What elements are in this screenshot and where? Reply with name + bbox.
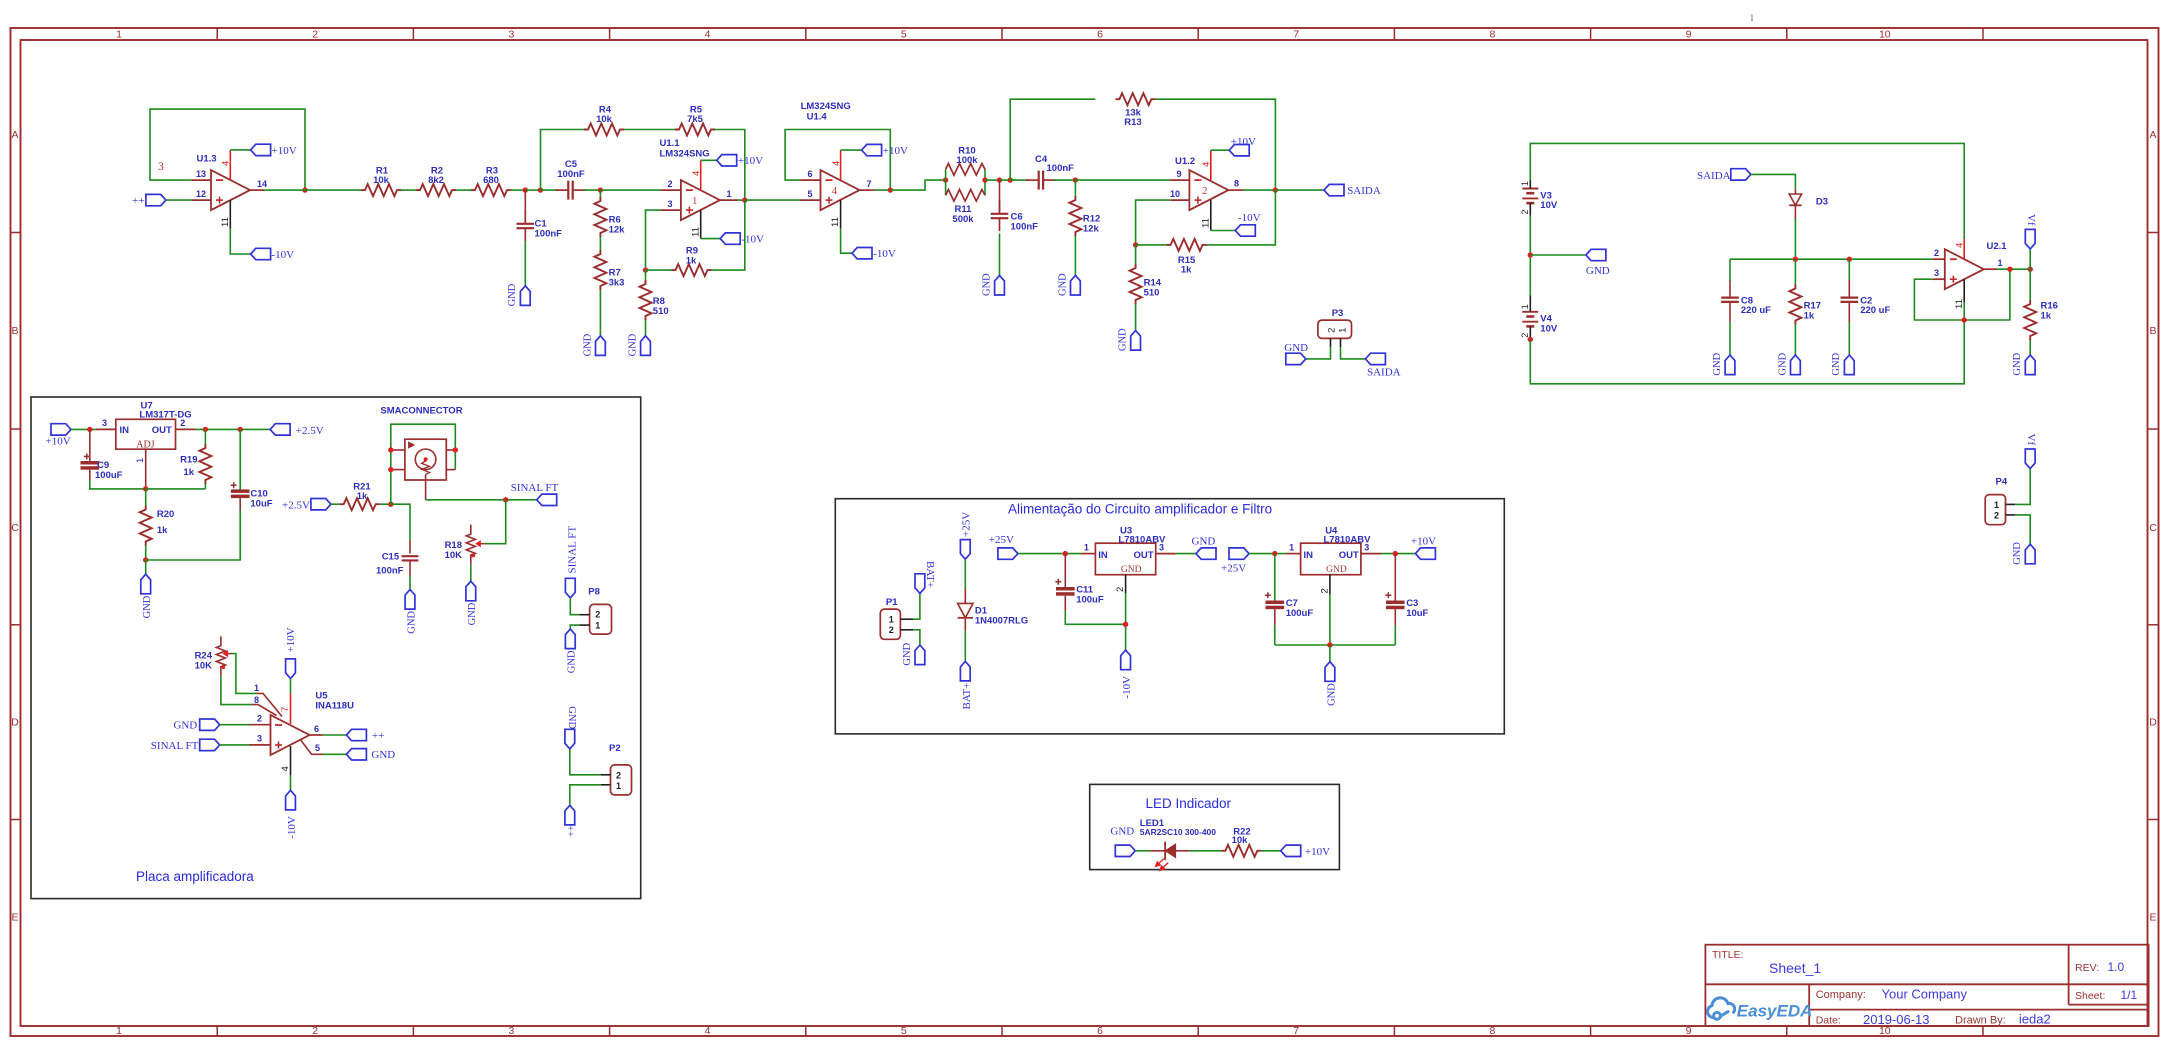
- svg-text:-10V: -10V: [1121, 676, 1133, 699]
- wire feedback loop U1.4: [785, 130, 890, 191]
- svg-text:-10V: -10V: [286, 816, 298, 839]
- svg-text:1/1: 1/1: [2121, 988, 2138, 1002]
- resistor R4: [584, 124, 624, 136]
- svg-text:100uF: 100uF: [1286, 608, 1314, 619]
- pin 2 U5: [250, 724, 271, 726]
- wire riser to R13: [1010, 99, 1095, 180]
- svg-text:R20: R20: [157, 509, 174, 520]
- svg-text:12k: 12k: [609, 224, 626, 235]
- wire ground rail: [1275, 644, 1396, 646]
- svg-text:4: 4: [221, 161, 232, 166]
- wire pin4 to +10V: [841, 149, 862, 151]
- resistor R22: [1221, 845, 1261, 857]
- svg-text:12k: 12k: [1083, 224, 1100, 235]
- svg-text:A: A: [2149, 129, 2156, 141]
- svg-text:3: 3: [508, 29, 514, 41]
- svg-text:6: 6: [1097, 29, 1103, 41]
- pin 11 U1.3: [229, 200, 231, 229]
- svg-text:TITLE:: TITLE:: [1712, 949, 1744, 961]
- svg-text:2019-06-13: 2019-06-13: [1863, 1012, 1930, 1027]
- svg-text:1k: 1k: [357, 491, 368, 502]
- wire battery loop bottom: [1530, 302, 1964, 384]
- svg-text:3: 3: [257, 734, 262, 744]
- port SINAL FT pin3: [200, 739, 220, 750]
- svg-text:1k: 1k: [1181, 265, 1192, 276]
- resistor R17: [1794, 259, 1796, 284]
- node C2 bus: [1847, 257, 1852, 262]
- pin 3 U7: [96, 428, 116, 430]
- resistor R7: [594, 250, 606, 290]
- svg-text:GND: GND: [1121, 565, 1142, 575]
- wire R9 to U1.1 output: [712, 200, 745, 270]
- svg-text:6: 6: [1097, 1025, 1103, 1037]
- node C1 junction: [523, 187, 528, 192]
- svg-text:GND: GND: [1192, 536, 1216, 548]
- svg-text:8: 8: [254, 695, 259, 705]
- node riser junction: [1008, 177, 1013, 182]
- pin 3 U1.1: [661, 209, 681, 211]
- svg-text:IN: IN: [1304, 550, 1314, 561]
- ground flag R17: [1791, 355, 1801, 375]
- svg-text:-10V: -10V: [873, 248, 896, 260]
- svg-text:GND: GND: [1777, 352, 1788, 375]
- capacitor C9: [89, 429, 91, 461]
- easyeda logo: [1708, 998, 1735, 1019]
- pin 3 U5: [250, 744, 271, 746]
- wire node to C15: [391, 504, 410, 540]
- svg-text:3: 3: [508, 1025, 514, 1037]
- svg-text:4: 4: [1201, 162, 1212, 167]
- svg-text:U1.4: U1.4: [807, 111, 828, 122]
- ground flag C15: [405, 590, 415, 610]
- svg-text:220 uF: 220 uF: [1860, 305, 1890, 316]
- pin 4 U1.2: [1210, 150, 1212, 180]
- svg-text:1: 1: [116, 29, 122, 41]
- svg-text:GND: GND: [582, 333, 593, 356]
- wire P2 pin1 to ++: [570, 785, 601, 806]
- svg-text:GND: GND: [1326, 565, 1347, 575]
- svg-text:4: 4: [691, 171, 702, 176]
- svg-text:SINAL FT: SINAL FT: [511, 482, 559, 494]
- resistor R14: [1135, 245, 1137, 264]
- svg-text:100nF: 100nF: [535, 228, 563, 239]
- svg-text:1k: 1k: [183, 467, 194, 478]
- svg-text:10V: 10V: [1540, 200, 1558, 211]
- pin 1 P1: [900, 618, 913, 620]
- svg-text:2: 2: [889, 625, 894, 635]
- power flag +10V U1.3: [251, 144, 271, 155]
- svg-text:P3: P3: [1332, 308, 1344, 319]
- svg-text:A: A: [11, 129, 18, 141]
- sma connector shield loop: [391, 424, 456, 504]
- svg-text:2: 2: [1320, 588, 1331, 593]
- ground flag R12: [1071, 275, 1081, 295]
- op-amp U1.4: [821, 170, 860, 210]
- wire minus bus: [1730, 258, 1932, 260]
- capacitor C6: [999, 180, 1001, 211]
- wire C3 to rail: [1394, 625, 1396, 645]
- svg-text:OUT: OUT: [1134, 550, 1154, 561]
- pin 8 U5: [252, 705, 277, 716]
- capacitor C8: [1729, 259, 1731, 281]
- svg-text:++: ++: [132, 195, 144, 207]
- wire GND to P2 pin2: [570, 749, 601, 775]
- svg-text:BAT+: BAT+: [961, 683, 973, 710]
- svg-text:2: 2: [1934, 248, 1939, 258]
- svg-text:6: 6: [807, 169, 812, 179]
- svg-text:4: 4: [705, 29, 711, 41]
- node U1.4 output: [888, 187, 893, 192]
- svg-text:1: 1: [889, 615, 894, 625]
- svg-text:8: 8: [1489, 29, 1495, 41]
- svg-text:9: 9: [1176, 169, 1181, 179]
- wire to R18 wiper: [485, 500, 506, 544]
- wire +25V to U4: [1249, 553, 1287, 555]
- wire pin4 to -10V: [290, 775, 292, 790]
- node R21 SMA: [388, 502, 393, 507]
- svg-text:C: C: [11, 522, 19, 534]
- svg-text:1k: 1k: [1804, 310, 1815, 321]
- svg-text:++: ++: [372, 730, 384, 742]
- ground flag U7: [141, 574, 151, 594]
- svg-text:+10V: +10V: [738, 155, 763, 167]
- wire node to node2: [525, 189, 540, 191]
- svg-text:OUT: OUT: [152, 425, 172, 436]
- box Alimentacao: [835, 499, 1504, 734]
- node R19 top: [203, 427, 208, 432]
- svg-text:+2.5V: +2.5V: [296, 425, 324, 437]
- svg-text:SAIDA: SAIDA: [1367, 366, 1401, 378]
- pin 8 U1.2: [1228, 189, 1243, 191]
- pin 1 U4: [1287, 553, 1301, 555]
- svg-text:LED Indicador: LED Indicador: [1146, 796, 1232, 811]
- ground flag P1: [915, 645, 925, 665]
- svg-text:8: 8: [1234, 178, 1239, 188]
- port ++ input: [146, 194, 166, 205]
- wire R21 to node: [380, 503, 391, 505]
- net flag Vf: [2025, 229, 2035, 249]
- regulator U4 L7810ABV: [1301, 543, 1361, 575]
- wire GND row to C10: [146, 510, 241, 560]
- svg-text:1: 1: [135, 458, 146, 463]
- wire pin5 to GND: [323, 753, 347, 755]
- pin 13 U1.3: [192, 179, 211, 181]
- svg-text:500k: 500k: [952, 214, 974, 225]
- capacitor C10: [239, 429, 241, 489]
- power flag +10V U1.2: [1229, 145, 1249, 156]
- ground flag U4: [1325, 662, 1335, 682]
- wire R13 to U1.2 output: [1155, 99, 1275, 190]
- pin 11 U1.2: [1210, 200, 1212, 230]
- svg-text:5: 5: [901, 29, 907, 41]
- svg-text:100nF: 100nF: [557, 169, 585, 180]
- svg-text:3: 3: [102, 418, 107, 428]
- wire R2-R3: [456, 189, 471, 191]
- wire P4 pin2 to GND: [2015, 515, 2030, 544]
- wire C15 to GND: [409, 576, 411, 590]
- pin 4 U5: [290, 746, 292, 775]
- svg-text:1: 1: [1997, 258, 2002, 268]
- wire R14 to GND: [1135, 304, 1137, 331]
- battery V4: [1522, 311, 1538, 313]
- pin 6 U5: [310, 734, 323, 736]
- svg-text:Your Company: Your Company: [1882, 986, 1968, 1001]
- box Placa amplificadora: [31, 397, 641, 899]
- wire battery loop top: [1530, 143, 1964, 238]
- wire R5 down to U1.1 output: [715, 130, 745, 201]
- svg-text:11: 11: [220, 217, 231, 227]
- svg-text:B: B: [11, 325, 18, 337]
- svg-text:+10V: +10V: [272, 145, 297, 157]
- wire R10 R11 right bar: [984, 169, 986, 195]
- svg-text:3: 3: [667, 199, 672, 209]
- node rail center: [1327, 642, 1332, 647]
- wire GND node down: [145, 560, 147, 574]
- svg-text:10uF: 10uF: [1406, 608, 1428, 619]
- net flag SAIDA P3: [1365, 353, 1385, 364]
- svg-text:2: 2: [1994, 511, 1999, 521]
- wire C5 to node3: [584, 189, 601, 191]
- op-amp U2.1: [1945, 249, 1984, 289]
- svg-text:1: 1: [616, 781, 621, 791]
- svg-text:+10V: +10V: [1231, 136, 1256, 148]
- node GND row: [143, 557, 148, 562]
- ground flag U3 out: [1196, 548, 1216, 559]
- wire pin11 to -10V: [701, 238, 721, 240]
- svg-text:2: 2: [312, 1025, 318, 1037]
- trimmer R24: [216, 636, 225, 676]
- ground flag R16: [2025, 355, 2035, 375]
- net flag ++ output: [346, 729, 366, 740]
- node C10 top: [238, 427, 243, 432]
- svg-text:5AR2SC10 300-400: 5AR2SC10 300-400: [1140, 827, 1216, 837]
- wire pin2 to rail: [1329, 595, 1331, 645]
- node R14 junction: [1133, 242, 1138, 247]
- wire riser node to C4: [1010, 179, 1028, 181]
- wire pin4 to +10V: [230, 149, 250, 151]
- svg-text:OUT: OUT: [1339, 550, 1359, 561]
- capacitor C4: [1026, 179, 1039, 181]
- pin 2 P8: [579, 614, 589, 616]
- pin 6 U1.4: [801, 179, 821, 181]
- pin 1 P2: [601, 784, 611, 786]
- wire R18 to GND: [470, 565, 472, 582]
- svg-text:100uF: 100uF: [1076, 595, 1104, 606]
- wire SINAL FT to P8: [570, 598, 579, 615]
- svg-text:1: 1: [1520, 181, 1530, 186]
- svg-text:SINAL FT: SINAL FT: [151, 740, 199, 752]
- wire pin3 net: [646, 210, 661, 270]
- svg-text:2: 2: [595, 610, 600, 620]
- svg-text:+25V: +25V: [961, 512, 973, 537]
- svg-text:ADJ: ADJ: [136, 440, 154, 451]
- power flag +10V U1.1: [717, 155, 737, 166]
- svg-text:GND: GND: [406, 611, 417, 634]
- port SAIDA source: [1731, 169, 1751, 180]
- wire node2 up to R4: [541, 130, 585, 191]
- svg-text:1: 1: [254, 683, 259, 693]
- pin 4 U1.4: [840, 150, 842, 180]
- port +25V U3: [998, 548, 1018, 559]
- svg-text:8: 8: [1489, 1025, 1495, 1037]
- net flag +10V LED: [1281, 845, 1301, 856]
- node D3 bus: [1793, 257, 1798, 262]
- svg-text:1: 1: [595, 620, 600, 630]
- wire C1 to GND: [524, 241, 526, 286]
- svg-text:GND: GND: [1110, 825, 1134, 837]
- wire D3 to bus: [1794, 219, 1796, 259]
- svg-text:100nF: 100nF: [1011, 222, 1039, 233]
- svg-text:GND: GND: [142, 595, 153, 618]
- sma pins right: [446, 449, 455, 451]
- svg-text:3: 3: [1159, 542, 1164, 552]
- wire R1-R2: [401, 189, 416, 191]
- net flag -10V U5: [286, 790, 296, 810]
- pin 2 U3: [1125, 575, 1127, 594]
- diode D1: [964, 589, 966, 603]
- node U7 input: [87, 427, 92, 432]
- node V4 bottom: [1528, 337, 1533, 342]
- svg-text:2: 2: [1520, 333, 1530, 338]
- wire pin6 to ++: [323, 734, 347, 736]
- svg-text:B: B: [2149, 325, 2156, 337]
- wire pin3 to GND flag: [1176, 553, 1196, 555]
- wire R16 to GND: [2029, 340, 2031, 355]
- wire P1 pin1 to BAT+: [913, 593, 920, 619]
- capacitor C2: [1848, 259, 1850, 280]
- svg-text:1: 1: [1337, 328, 1348, 333]
- wire node to R15: [1136, 244, 1167, 246]
- svg-text:+25V: +25V: [989, 534, 1014, 546]
- pin 2 U4: [1329, 575, 1331, 595]
- svg-text:5: 5: [807, 189, 812, 199]
- wire R7 to GND: [599, 290, 601, 336]
- svg-text:P1: P1: [886, 597, 898, 608]
- svg-text:11: 11: [830, 217, 841, 227]
- svg-text:11: 11: [690, 227, 701, 237]
- pin 2 U7: [176, 428, 196, 430]
- svg-text:1: 1: [1520, 304, 1530, 309]
- svg-text:++: ++: [567, 825, 578, 837]
- node Vf branch: [2028, 267, 2033, 272]
- instrumentation amplifier U5: [271, 715, 310, 755]
- wire node3 to U1.1 pin2: [600, 189, 661, 191]
- svg-text:1k: 1k: [2041, 310, 2052, 321]
- svg-text:GND: GND: [902, 642, 913, 665]
- svg-text:GND: GND: [627, 333, 638, 356]
- svg-text:P8: P8: [588, 586, 600, 597]
- ground flag R8: [641, 336, 651, 356]
- svg-text:C15: C15: [382, 551, 400, 562]
- node GND junction: [1528, 252, 1533, 257]
- svg-text:1: 1: [1994, 500, 1999, 510]
- svg-text:INA118U: INA118U: [315, 701, 354, 712]
- svg-text:2: 2: [1202, 186, 1207, 197]
- pin 5 U5: [300, 740, 322, 755]
- svg-text:GND: GND: [173, 720, 197, 732]
- svg-text:680: 680: [483, 175, 499, 186]
- net flag -10V U3: [1121, 650, 1131, 670]
- svg-text:220 uF: 220 uF: [1741, 305, 1771, 316]
- pin 9 U1.2: [1170, 179, 1189, 181]
- op-amp U1.2: [1189, 170, 1228, 210]
- wire R8 node to R9: [646, 269, 672, 271]
- regulator U3 L7810ABV: [1095, 543, 1155, 575]
- ground flag R14: [1131, 331, 1141, 351]
- wire +10V to pin7: [290, 679, 292, 694]
- pin 2 U1.1: [661, 189, 681, 191]
- pin 1 P4: [2006, 503, 2016, 505]
- svg-text:+25V: +25V: [1221, 563, 1246, 575]
- svg-text:10K: 10K: [195, 661, 213, 672]
- svg-text:4: 4: [705, 1025, 711, 1037]
- svg-text:C: C: [2149, 522, 2157, 534]
- box LED Indicador: [1090, 784, 1340, 869]
- svg-text:SINAL FT: SINAL FT: [567, 526, 579, 574]
- node R10 left: [943, 177, 948, 182]
- svg-text:D3: D3: [1816, 197, 1828, 208]
- power flag -10V U1.3: [251, 248, 271, 259]
- wire OUT net: [196, 428, 271, 430]
- pin 3 U4: [1361, 553, 1381, 555]
- capacitor C1: [524, 190, 526, 213]
- svg-text:GND: GND: [507, 283, 518, 306]
- wire GND to LED: [1135, 850, 1150, 852]
- svg-text:Company:: Company:: [1816, 989, 1866, 1001]
- wire R22 to +10V: [1261, 850, 1280, 852]
- svg-text:GND: GND: [1831, 352, 1842, 375]
- pin 4 U2.1: [1963, 239, 1965, 260]
- svg-text:P2: P2: [609, 743, 621, 754]
- net flag GND pin5: [346, 749, 366, 760]
- svg-text:12: 12: [196, 189, 206, 199]
- pin 1 P3: [1330, 338, 1332, 347]
- wire +25V to U3: [1018, 553, 1081, 555]
- wire pin11 to -10V: [841, 229, 852, 254]
- svg-text:D: D: [11, 717, 19, 729]
- svg-text:+10V: +10V: [883, 145, 908, 157]
- svg-text:SMACONNECTOR: SMACONNECTOR: [380, 405, 462, 416]
- pin ADJ U7: [145, 449, 147, 489]
- resistor R21: [340, 498, 380, 510]
- ground flag C2: [1844, 355, 1854, 375]
- wire C9 to ADJ row: [90, 480, 146, 489]
- svg-text:1: 1: [726, 189, 731, 199]
- svg-text:U1.2: U1.2: [1175, 156, 1195, 167]
- wire C8 to GND: [1729, 322, 1731, 355]
- wire C6 to GND: [999, 233, 1001, 275]
- svg-text:3: 3: [158, 161, 164, 173]
- sma center pin: [425, 474, 427, 499]
- svg-text:U2.1: U2.1: [1987, 241, 2008, 252]
- port GND pin2: [200, 719, 220, 730]
- net flag BAT+ P1: [915, 574, 925, 594]
- resistor R6: [599, 190, 601, 197]
- node C7 top: [1272, 551, 1277, 556]
- wire C7 to rail: [1274, 625, 1276, 645]
- wire ADJ row right: [146, 488, 206, 490]
- svg-text:GND: GND: [2012, 542, 2023, 565]
- node R4 junction: [538, 187, 543, 192]
- svg-text:2: 2: [312, 29, 318, 41]
- resistor R1: [361, 184, 401, 196]
- pin 1 P8: [579, 624, 589, 626]
- sma connector body: [405, 439, 446, 480]
- svg-text:LM324SNG: LM324SNG: [660, 148, 710, 159]
- svg-text:9: 9: [1686, 29, 1692, 41]
- regulator U7 LM317T-DG: [116, 419, 176, 449]
- wire feedback loop U1.3: [150, 109, 305, 190]
